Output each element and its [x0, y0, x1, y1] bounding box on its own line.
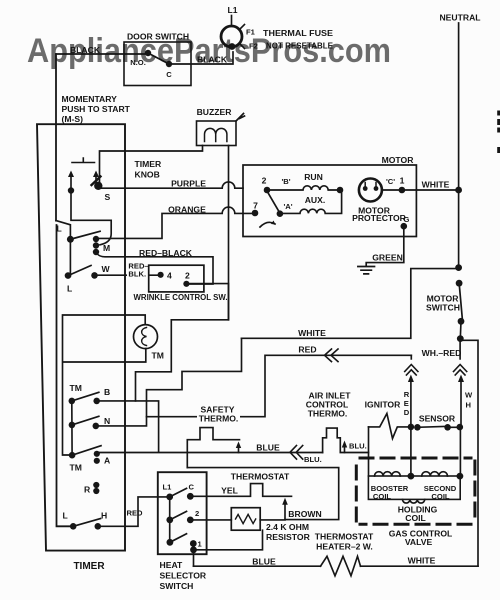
label MOMENTARY PUSH TO START (M-S) [62, 94, 131, 124]
label GREEN [372, 253, 403, 263]
svg-text:2: 2 [195, 509, 199, 518]
svg-text:SWITCH: SWITCH [426, 303, 460, 313]
label 2.4 K OHM RESISTOR [266, 522, 311, 542]
label MOTOR PROTECTOR [352, 206, 407, 224]
label HEAT SELECTOR SWITCH [160, 560, 207, 591]
svg-text:RED: RED [127, 509, 144, 518]
motor box [243, 165, 416, 237]
label THERMOSTAT HEATER-2 W. [315, 532, 374, 552]
svg-text:NEUTRAL: NEUTRAL [439, 13, 480, 23]
label S [105, 192, 111, 202]
label 'A' [283, 202, 292, 211]
svg-text:BUZZER: BUZZER [197, 107, 233, 117]
wire B to blue drop [99, 401, 159, 452]
fuse tick SE (F2 terminal) [240, 44, 245, 49]
door switch DS1 box [124, 42, 191, 86]
label L1 (heat selector) [163, 483, 173, 492]
svg-text:SENSOR: SENSOR [419, 414, 456, 424]
svg-text:MOMENTARY: MOMENTARY [62, 94, 118, 104]
motor protector pin dots [363, 186, 379, 191]
node: B pivot [69, 398, 76, 405]
sensor element [417, 426, 447, 427]
wire blue: A terminal to ignitor leg [100, 452, 323, 454]
svg-text:SWITCH: SWITCH [160, 581, 194, 591]
label TM (motor) [152, 351, 164, 361]
motor switch lower contact [458, 318, 465, 325]
connector arrow (safety thermo to blue) [236, 442, 241, 453]
label N [104, 416, 110, 426]
label WH.-RED [422, 348, 462, 358]
svg-text:WHITE: WHITE [408, 556, 436, 566]
wire orange: M contact to motor terminal 7 (hop over buzzer line) [98, 207, 252, 238]
svg-text:WHITE: WHITE [422, 180, 450, 190]
svg-text:(M-S): (M-S) [62, 114, 84, 124]
blade mid [170, 511, 187, 520]
wire red feed from N riser [147, 355, 412, 416]
wire staircase N to white [99, 338, 242, 426]
svg-text:RUN: RUN [304, 172, 323, 182]
label L1 [227, 5, 237, 15]
terminal S [94, 182, 102, 190]
label RUN [304, 172, 323, 182]
label PURPLE [171, 179, 206, 189]
label THERMAL FUSE [263, 28, 333, 38]
wire pivot chain B-N-A [71, 401, 73, 455]
wire green: G to ground [366, 226, 404, 266]
wire staircase B to wrinkle2/buzzer [136, 284, 229, 401]
label YEL [221, 486, 238, 496]
label 7 [253, 201, 258, 211]
terminal M dots [93, 236, 99, 255]
switch L-H blade [73, 519, 100, 527]
wire heat selector 2 to resistor [194, 519, 232, 521]
svg-text:COIL: COIL [431, 492, 450, 501]
switch M blade [70, 231, 100, 239]
resistor zigzag [236, 514, 256, 523]
svg-text:C: C [189, 483, 195, 492]
node: wrinkle terminal 2 [183, 281, 189, 287]
motor switch upper contact [456, 280, 463, 287]
label W H (vertical) [465, 391, 473, 410]
svg-text:RESISTOR: RESISTOR [266, 532, 311, 542]
svg-text:BLUE: BLUE [256, 443, 280, 453]
wire wh-red stub [459, 342, 461, 359]
resistor box 2.4K [231, 508, 260, 531]
label BLACK (right) [197, 55, 228, 65]
door switch contact N.O. [145, 50, 151, 56]
svg-text:HEAT: HEAT [160, 560, 184, 570]
svg-text:VALVE: VALVE [405, 537, 433, 547]
wire white bottom [361, 565, 479, 567]
label TM (B/N cams) [70, 383, 82, 393]
label BLU. (air inlet) [349, 442, 367, 451]
switch motor 'A' blade [267, 191, 280, 213]
wire TM bottom [63, 349, 146, 362]
svg-text:TIMER: TIMER [73, 561, 105, 572]
second coil [422, 472, 448, 476]
label W [102, 264, 111, 274]
label L (L-H) [63, 511, 68, 521]
svg-text:TM: TM [70, 463, 82, 473]
svg-text:TM: TM [70, 383, 82, 393]
label IGNITOR [365, 400, 401, 410]
label DOOR SWITCH [127, 32, 189, 42]
svg-text:HEATER–2 W.: HEATER–2 W. [316, 542, 373, 552]
node: sensor right dots [444, 424, 463, 431]
svg-text:ORANGE: ORANGE [168, 205, 206, 215]
wire to white bottom loop [460, 339, 478, 567]
wire resistor to brown junction [260, 519, 285, 521]
node: motor terminal 2 [264, 187, 271, 194]
svg-text:TIMER: TIMER [135, 159, 163, 169]
node: A pivot [69, 452, 76, 459]
svg-text:BLU.: BLU. [304, 455, 322, 464]
buzzer striker [236, 114, 245, 122]
wire safety-to-brown link [187, 468, 338, 520]
wire TM top [63, 315, 146, 455]
svg-text:L1: L1 [227, 5, 237, 15]
wire black left: door switch feed [56, 53, 146, 55]
door switch contact C [166, 61, 172, 67]
label BLU. (after chevrons) [304, 455, 322, 464]
svg-text:RED: RED [298, 345, 316, 355]
connector arrow (blu to air inlet) [342, 441, 347, 453]
svg-text:'A': 'A' [283, 202, 292, 211]
wire motor switch lower link [459, 321, 462, 338]
blade L1-C [170, 488, 187, 497]
timer box [37, 124, 125, 550]
svg-text:BLUE: BLUE [252, 557, 276, 567]
wire heat selector 1 to resistor bottom [197, 530, 263, 550]
cam follower arrow 2 [93, 171, 99, 183]
svg-text:G: G [404, 215, 410, 224]
node: heat selector low-left [167, 539, 174, 546]
wire neutral vertical [458, 23, 460, 266]
terminal W [91, 272, 98, 279]
svg-text:THERMO.: THERMO. [199, 414, 239, 424]
ground symbol [358, 267, 375, 274]
label F2 [249, 42, 258, 51]
blade low [170, 534, 187, 543]
air inlet control thermo element [323, 428, 369, 452]
watermark AppliancePartsPros.com [27, 32, 391, 70]
gas control valve dashed box [356, 458, 475, 524]
svg-text:B: B [104, 387, 110, 397]
svg-text:7: 7 [253, 201, 258, 211]
svg-text:A: A [104, 456, 110, 466]
svg-text:WH.–RED: WH.–RED [422, 348, 462, 358]
label 2 [262, 176, 267, 186]
svg-text:COIL: COIL [405, 513, 426, 523]
node: booster/red dot [408, 473, 415, 480]
wire white mid: N staircase to motor switch [242, 269, 457, 339]
node: ignitor/red junction dots [408, 424, 421, 431]
wire W to wrinkle terminal 4 [97, 274, 158, 276]
svg-text:H: H [466, 401, 471, 410]
wire red-black: M bottom to wrinkle terminal 2 [97, 254, 213, 285]
aux winding wire + coil [283, 190, 342, 213]
svg-text:1: 1 [400, 176, 405, 186]
label C [166, 70, 172, 79]
wire ignitor leg down to booster coil [368, 427, 370, 476]
svg-text:THERMOSTAT: THERMOSTAT [231, 472, 290, 482]
node: heat selector C [187, 493, 194, 500]
label TIMER [73, 561, 105, 572]
svg-text:C: C [166, 70, 172, 79]
svg-text:L: L [67, 284, 72, 294]
cam actuator arc [260, 221, 276, 228]
label G [404, 215, 410, 224]
thermostat heater resistor zigzag [321, 556, 361, 576]
label RED (mid) [298, 345, 316, 355]
svg-text:N: N [104, 416, 110, 426]
label MOTOR [382, 155, 415, 165]
svg-text:KNOB: KNOB [135, 170, 160, 180]
TM motor squiggle [142, 328, 147, 346]
terminal A dots [94, 451, 100, 464]
svg-text:2: 2 [185, 271, 190, 281]
wire white: motor to neutral [416, 189, 457, 191]
label TM (A cam) [70, 463, 82, 473]
terminal B [93, 398, 100, 405]
label NEUTRAL [439, 13, 480, 23]
wrinkle control switch box [149, 265, 204, 292]
label SENSOR [419, 414, 456, 424]
svg-text:PROTECTOR: PROTECTOR [352, 213, 407, 223]
label 'B' [281, 177, 290, 186]
switch A blade [72, 446, 101, 456]
heat selector left column [169, 497, 171, 542]
cam follower arrow 1 [68, 171, 74, 191]
label M [103, 243, 110, 253]
label 4 [167, 271, 172, 281]
label N.O. [130, 58, 146, 67]
svg-text:IGNITOR: IGNITOR [365, 400, 401, 410]
terminal H [95, 523, 102, 530]
svg-text:'C': 'C' [386, 177, 395, 186]
label R E D (vertical) [404, 390, 410, 417]
terminal N [93, 423, 100, 430]
svg-text:MOTOR: MOTOR [382, 155, 415, 165]
svg-text:R: R [84, 485, 91, 495]
wire arrow1 contact to M mid [71, 193, 111, 245]
wire L feed vertical (door switch down left side of timer) [55, 54, 57, 221]
L1 stub wire [231, 16, 233, 27]
node: wrinkle terminal 4 [158, 272, 164, 278]
terminal G [401, 223, 408, 230]
label R [84, 485, 91, 495]
label RED-BLK. [127, 262, 149, 279]
label ORANGE [168, 205, 206, 215]
label MOTOR SWITCH [426, 294, 460, 313]
label RED (heat selector) [127, 509, 144, 518]
ignitor element [369, 414, 408, 439]
label B [104, 387, 110, 397]
motor protector pins [365, 183, 376, 189]
label 1 (heat selector) [198, 540, 203, 549]
label GAS CONTROL VALVE [389, 529, 453, 548]
node: heat selector 2 [187, 517, 194, 524]
node: fuse bottom dot F2 [229, 43, 236, 50]
connector arrow (wh) [458, 375, 464, 427]
svg-text:R: R [404, 390, 410, 399]
TM motor circle [134, 325, 158, 349]
label BROWN [288, 509, 321, 519]
label AUX. [305, 195, 326, 205]
svg-text:4: 4 [167, 271, 172, 281]
svg-text:2: 2 [262, 176, 267, 186]
wire red: H to heat selector L1 [100, 497, 167, 526]
buzzer box [197, 121, 237, 146]
node: W pivot [65, 272, 72, 279]
label SAFETY THERMO. [197, 405, 240, 424]
svg-text:BLK.: BLK. [128, 270, 146, 279]
label WHITE (mid) [298, 328, 326, 338]
wire sensor down to second coil dot [459, 427, 461, 476]
door switch blade [148, 53, 168, 64]
svg-text:W: W [102, 264, 111, 274]
buzzer coil [205, 128, 227, 141]
node: heat selector 1 dots [190, 540, 197, 553]
svg-text:'B': 'B' [281, 177, 290, 186]
holding coil [403, 499, 425, 503]
wire buzzer left to S [100, 146, 203, 183]
svg-text:H: H [101, 511, 107, 521]
svg-text:L: L [57, 224, 62, 234]
node: N pivot [69, 422, 76, 429]
connector chevrons (red) [405, 365, 418, 376]
svg-text:E: E [404, 399, 409, 408]
svg-text:M: M [103, 243, 110, 253]
svg-text:BLU.: BLU. [349, 442, 367, 451]
node: L pivot (L-H) [70, 523, 77, 530]
node: motor switch top [455, 264, 462, 271]
crossing chevrons on blue wire [290, 446, 303, 460]
svg-text:L1: L1 [163, 483, 173, 492]
label TIMER KNOB [135, 159, 163, 180]
svg-text:S: S [105, 192, 111, 202]
svg-text:COIL: COIL [373, 492, 392, 501]
node: neutral/white junction [455, 187, 462, 194]
label C (heat selector) [189, 483, 195, 492]
node: M pivot [67, 236, 74, 243]
motor protector circle [359, 179, 382, 202]
label HOLDING COIL [398, 505, 438, 524]
svg-text:2.4 K OHM: 2.4 K OHM [266, 522, 309, 532]
label BLACK (left) [70, 45, 101, 55]
timer cam T symbol [72, 158, 95, 163]
label 1 [400, 176, 405, 186]
label L (M cam) [57, 224, 62, 234]
wire black right: door switch to L1 [169, 52, 233, 64]
wire jog to M pivot [56, 221, 70, 237]
svg-text:TM: TM [152, 351, 164, 361]
label WHITE (bottom) [408, 556, 436, 566]
label A [104, 456, 110, 466]
svg-text:PUSH TO START: PUSH TO START [62, 104, 131, 114]
crossing chevrons on red wire [325, 349, 339, 362]
booster coil [375, 472, 401, 476]
svg-text:THERMO.: THERMO. [308, 409, 348, 419]
label NOT RESETABLE [266, 41, 333, 51]
connector chevrons (wh-red) [454, 365, 467, 376]
label BLUE (bottom) [252, 557, 276, 567]
safety thermo element [187, 428, 239, 468]
svg-text:AppliancePartsPros.com: AppliancePartsPros.com [27, 32, 391, 70]
svg-text:GREEN: GREEN [372, 253, 403, 263]
svg-text:D: D [404, 408, 410, 417]
wire sensor link [448, 426, 460, 428]
svg-text:WRINKLE CONTROL SW.: WRINKLE CONTROL SW. [134, 292, 228, 302]
label BLUE (mid) [256, 443, 280, 453]
node: second coil dot [457, 473, 464, 480]
node: aux contact [277, 210, 284, 217]
switch S blade [92, 177, 101, 186]
label WHITE [422, 180, 450, 190]
node: timer contact dot (arrow1) [68, 187, 74, 193]
svg-text:BROWN: BROWN [288, 509, 321, 519]
label H [101, 511, 107, 521]
node: run/aux junction [337, 187, 344, 194]
label AIR INLET CONTROL THERMO. [306, 391, 352, 419]
terminal 7 [252, 210, 259, 217]
svg-text:SELECTOR: SELECTOR [160, 571, 207, 581]
svg-text:RED–BLACK: RED–BLACK [139, 248, 193, 258]
wire heat selector 1 down to blue bottom [193, 550, 195, 566]
wire red junction down to booster dot [410, 427, 412, 476]
right edge marks [497, 111, 500, 154]
label F1 [246, 28, 256, 37]
terminal L1 / thermal fuse circle [221, 26, 242, 47]
terminal R dots [93, 482, 99, 494]
label WRINKLE CONTROL SW. [134, 292, 228, 302]
switch W blade [68, 266, 91, 276]
label BUZZER [197, 107, 233, 117]
node: motor terminal 1 [399, 187, 406, 194]
run winding wire + coil [267, 186, 340, 190]
wire W pivot feed [69, 241, 71, 276]
gas valve coil frame [368, 476, 460, 499]
wire protector to terminal 1 [382, 189, 416, 191]
wire buzzer center down to junction with B staircase [228, 146, 230, 320]
svg-text:THERMOSTAT: THERMOSTAT [315, 532, 374, 542]
wire purple: S to motor (hop over buzzer line) [99, 182, 243, 188]
fuse tick NE (F1 terminal) [240, 25, 245, 30]
label L (W cam) [67, 284, 72, 294]
node: heat selector L1 [166, 494, 173, 501]
label SECOND COIL [424, 484, 457, 501]
label THERMOSTAT [231, 472, 290, 482]
svg-text:AUX.: AUX. [305, 195, 326, 205]
node: heat selector mid-left [166, 517, 173, 524]
label 'C' [386, 177, 395, 186]
switch B blade [72, 392, 99, 401]
motor switch blade [459, 286, 462, 319]
svg-text:W: W [465, 391, 473, 400]
label 2 [185, 271, 190, 281]
wire yel: C to thermostat [193, 484, 292, 497]
wire blue bottom [194, 565, 321, 567]
svg-text:L: L [63, 511, 68, 521]
svg-text:PURPLE: PURPLE [171, 179, 206, 189]
label 2 (heat selector) [195, 509, 199, 518]
label RED-BLACK [139, 248, 193, 258]
switch N blade [72, 416, 99, 425]
label BOOSTER COIL [371, 484, 409, 501]
svg-text:YEL: YEL [221, 486, 238, 496]
connector arrow (brown to yel) [282, 498, 288, 520]
connector arrow (red) [408, 375, 414, 427]
